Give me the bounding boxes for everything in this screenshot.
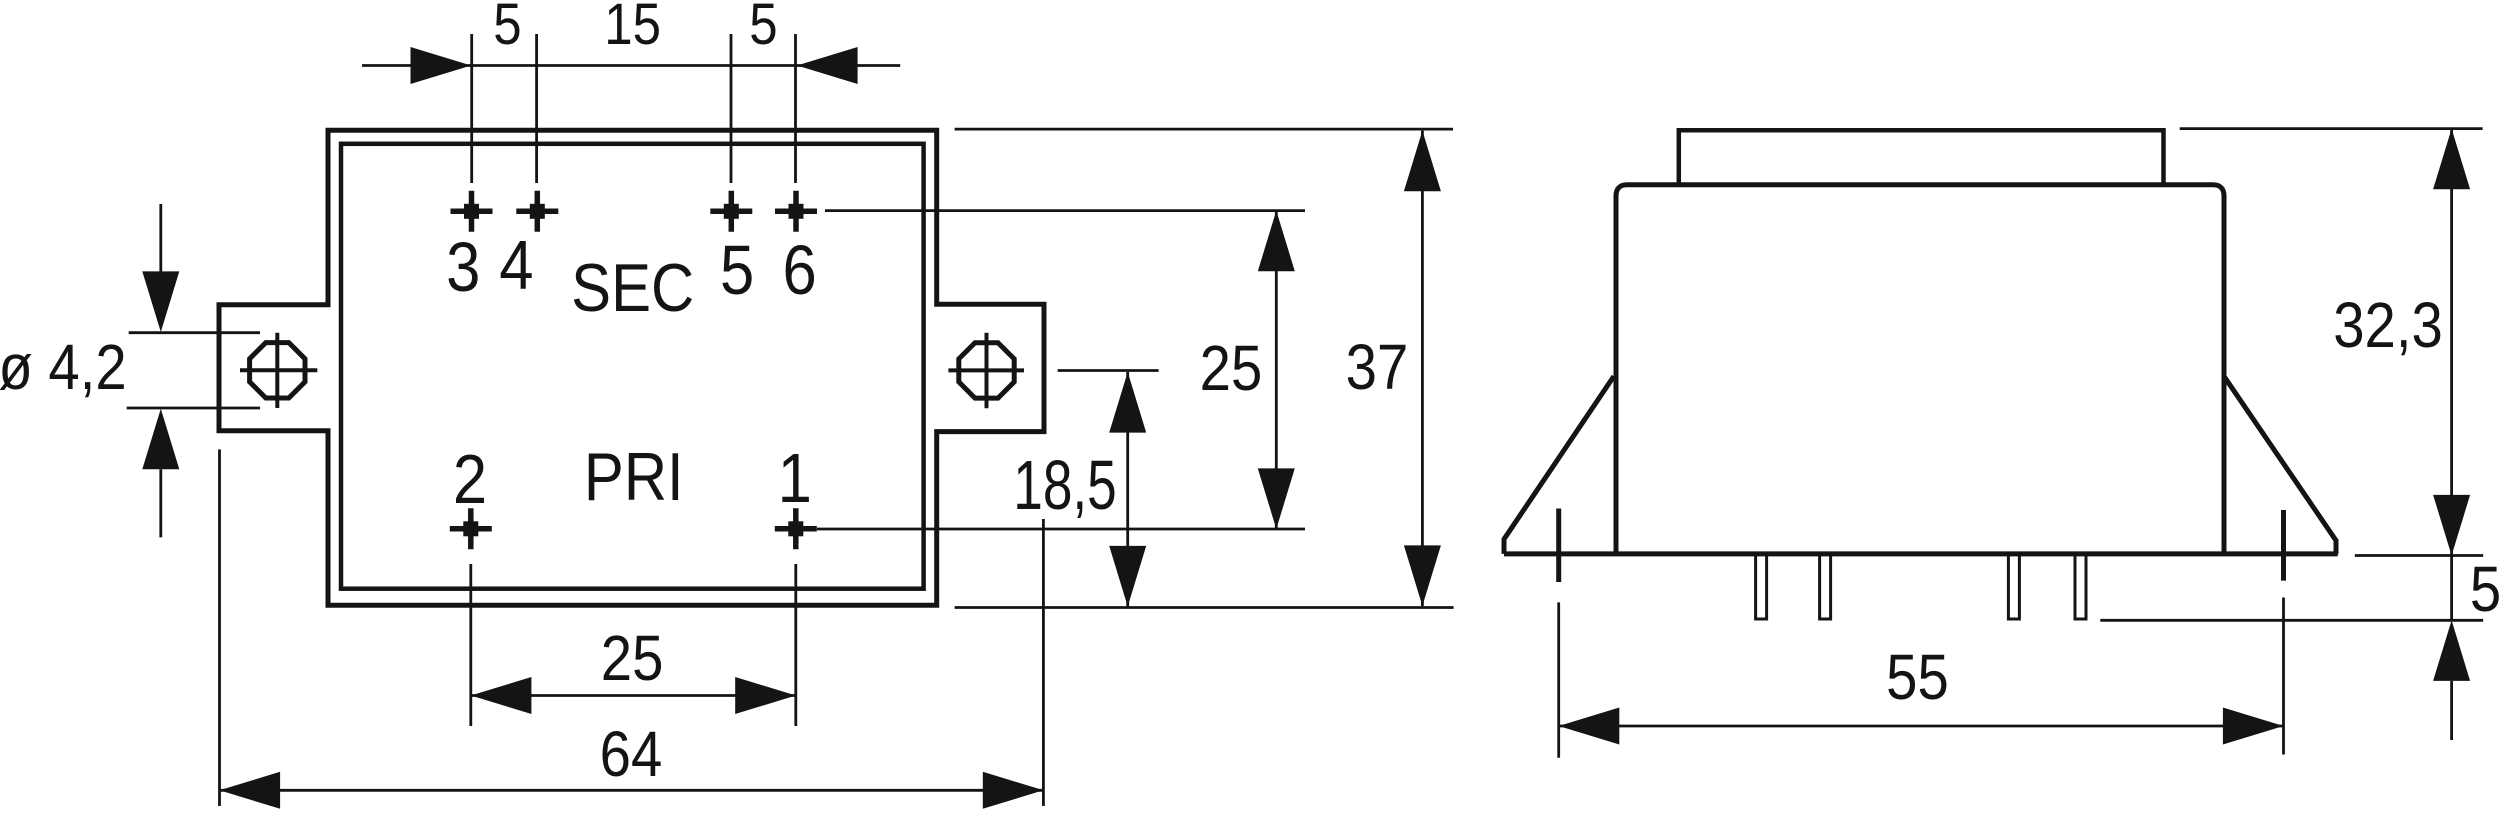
side view base plate bottom edge: [1504, 551, 2338, 556]
side view pin 3: [2008, 554, 2019, 619]
bottom dimension 25 right arrow: [735, 677, 796, 714]
hole diameter up arrow: [142, 409, 179, 470]
extension line of pin 6 row to the right: [825, 209, 1305, 212]
svg-text:32,3: 32,3: [2333, 289, 2443, 361]
winding label PRI: [584, 438, 684, 514]
pin 5 cross: [710, 191, 752, 232]
svg-text:5: 5: [493, 0, 521, 57]
hole diameter down arrow: [142, 271, 179, 332]
bottom dimension 25 extension lines: [471, 564, 796, 726]
dimension 25 vertical line: [1275, 211, 1278, 529]
dimension label 25 vertical: [1200, 332, 1263, 404]
bottom dimension 64 right arrow: [983, 772, 1044, 809]
svg-text:18,5: 18,5: [1013, 447, 1117, 525]
pin label 3: [446, 227, 480, 306]
side view pin 4: [2075, 554, 2086, 619]
hole diameter dimension vertical line lower: [159, 469, 162, 537]
side view left flange: [1504, 376, 1614, 554]
top dimension right arrow: [797, 47, 858, 84]
pin 6 cross: [775, 191, 817, 232]
pin label 4: [499, 225, 533, 304]
svg-text:1: 1: [778, 438, 812, 517]
dimension label 64: [600, 718, 663, 790]
side view right flange: [2225, 377, 2337, 554]
svg-text:5: 5: [749, 0, 777, 57]
dimension 18,5 up arrow: [1109, 372, 1146, 433]
extension line of cap top to the right: [2180, 127, 2483, 130]
svg-text:PRI: PRI: [584, 438, 684, 514]
dimension 18,5 down arrow: [1109, 546, 1146, 607]
side view pin 1: [1756, 554, 1767, 619]
pin 3 cross: [451, 191, 493, 232]
hole diameter dimension vertical line upper: [159, 204, 162, 272]
svg-text:6: 6: [782, 230, 816, 309]
top dimension 5-15-5 extension lines: [472, 34, 796, 183]
pin label 6: [782, 230, 816, 309]
side view coil bobbin cap: [1679, 130, 2164, 185]
svg-text:3: 3: [446, 227, 480, 306]
dimension 5 connecting line: [2450, 556, 2453, 621]
svg-text:4: 4: [499, 225, 533, 304]
dimension 5 tail line: [2450, 681, 2453, 740]
bottom dimension 25 line: [471, 694, 796, 697]
dimension 55 left arrow: [1559, 708, 1620, 745]
dimension 37 vertical line: [1421, 131, 1424, 606]
left mounting screw mark: [1556, 509, 1561, 583]
bottom dimension 64 line: [220, 789, 1044, 792]
extension line of pin bottoms to the right: [2100, 619, 2483, 622]
dimension label 25 bottom: [601, 622, 664, 694]
dimension 37 up arrow: [1404, 131, 1441, 192]
dimension 18,5 vertical line: [1126, 372, 1129, 607]
extension line of pin 1 row to the right: [817, 528, 1305, 531]
dimension label 32,3: [2333, 289, 2443, 361]
side view pin 2: [1820, 554, 1831, 619]
dimension 55 extension lines: [1559, 598, 2284, 758]
dimension label 55: [1886, 641, 1949, 713]
top dimension left arrow: [411, 47, 472, 84]
svg-text:37: 37: [1346, 331, 1409, 403]
pin 2 cross: [450, 508, 492, 549]
bottom dimension 25 left arrow: [471, 677, 532, 714]
dimension 25 down arrow: [1258, 468, 1295, 529]
dimension 25 up arrow: [1258, 211, 1295, 272]
svg-text:64: 64: [600, 718, 663, 790]
extension line of case bottom edge to the right: [955, 606, 1454, 609]
pin label 2: [453, 439, 487, 518]
right mounting screw mark: [2281, 510, 2286, 581]
pin 1 cross: [775, 508, 817, 549]
pin 4 cross: [516, 191, 558, 232]
top dimension line: [362, 64, 900, 67]
transformer case outline top view with mounting tabs: [219, 130, 1044, 605]
pin label 5: [720, 230, 754, 309]
dimension 32,3 vertical line: [2450, 129, 2453, 556]
dimension label 15: [604, 0, 661, 57]
extension line of base bottom to the right: [2355, 554, 2483, 557]
dimension 32,3 up arrow: [2433, 129, 2470, 190]
mounting hole right octagon: [959, 343, 1014, 398]
extension line of hole centre to the right: [1058, 369, 1159, 372]
bottom dimension 64 left arrow: [220, 772, 281, 809]
dimension label 5 side view: [2470, 553, 2501, 625]
hole diameter dimension lines: [127, 333, 260, 408]
svg-text:55: 55: [1886, 641, 1949, 713]
dimension label 5 right: [749, 0, 777, 57]
dimension 32,3 down arrow: [2433, 495, 2470, 556]
inner case edge rectangle: [341, 144, 924, 589]
dimension label 37: [1346, 331, 1409, 403]
side view transformer body: [1616, 185, 2224, 554]
dimension label 5 left: [493, 0, 521, 57]
svg-text:15: 15: [604, 0, 661, 57]
bottom dimension 64 extension lines: [220, 449, 1044, 806]
winding label SEC: [571, 249, 694, 325]
dimension label diameter 4,2: [0, 331, 127, 403]
mounting hole left crosshair: [240, 333, 317, 408]
mounting hole left octagon: [250, 343, 305, 398]
pin label 1: [778, 438, 812, 517]
svg-text:25: 25: [601, 622, 664, 694]
dimension 55 line: [1559, 725, 2284, 728]
dimension 37 down arrow: [1404, 545, 1441, 606]
svg-text:5: 5: [720, 230, 754, 309]
dimension 5 up arrow below pin line: [2433, 620, 2470, 681]
svg-text:2: 2: [453, 439, 487, 518]
extension line of case top edge to the right: [955, 128, 1453, 131]
svg-text:25: 25: [1200, 332, 1263, 404]
dimension label 18,5: [1013, 447, 1117, 525]
svg-text:ø 4,2: ø 4,2: [0, 331, 127, 403]
svg-text:SEC: SEC: [571, 249, 694, 325]
mounting hole right crosshair: [948, 333, 1024, 409]
dimension 55 right arrow: [2223, 708, 2284, 745]
svg-text:5: 5: [2470, 553, 2501, 625]
